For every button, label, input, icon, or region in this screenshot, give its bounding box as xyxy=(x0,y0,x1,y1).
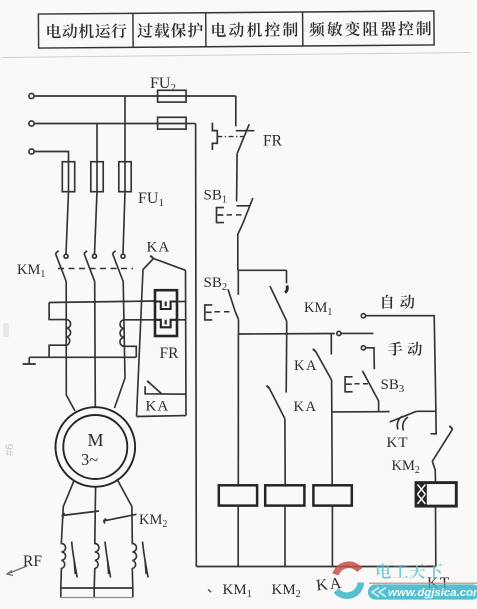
svg-text:3~: 3~ xyxy=(81,450,98,469)
contact KM1 self-holding xyxy=(286,270,288,283)
wire phase3 KM1 to motor xyxy=(115,282,126,409)
watermark banner xyxy=(368,583,477,599)
CT coil 3 winding bumps xyxy=(120,320,124,346)
rung B wire xyxy=(239,333,335,336)
motor M outer ring xyxy=(56,407,136,487)
wire phase1 KM1 to motor xyxy=(66,282,75,412)
svg-text:KA: KA xyxy=(294,399,318,415)
terminal auto xyxy=(361,314,365,318)
fuse FU2b xyxy=(158,117,187,129)
watermark logo swirl red xyxy=(336,565,360,575)
svg-text:#6: #6 xyxy=(4,444,16,456)
thermal contact FR heater bracket xyxy=(212,123,217,150)
left control rail xyxy=(195,124,198,567)
label KA coil xyxy=(315,575,344,595)
svg-text:KM2: KM2 xyxy=(272,582,301,600)
contactor KM1 pole 2 xyxy=(93,254,97,258)
svg-text:RF: RF xyxy=(23,553,42,570)
wire L3 to fuse FU1a xyxy=(34,152,68,162)
wire FU2b to left control rail xyxy=(186,123,196,125)
table cell text: frequency-sensitive rheostat control xyxy=(309,21,431,37)
table cell text: motor run xyxy=(47,21,431,39)
relay contact KA lower xyxy=(145,386,186,394)
pushbutton SB3 normally-open xyxy=(362,371,378,412)
svg-text:FU2: FU2 xyxy=(150,75,176,94)
terminal manual xyxy=(361,346,365,350)
table cell text: overload protection xyxy=(137,23,202,38)
coil KM1 xyxy=(219,485,257,505)
enclosure right edge xyxy=(185,270,188,415)
FR box right stubs to enclosure xyxy=(177,301,186,303)
svg-text:KA: KA xyxy=(147,240,171,256)
wire manual to SB3 xyxy=(366,348,375,369)
wire KM2 contact to KT coil xyxy=(432,461,435,482)
FR heater element 1 xyxy=(155,302,177,310)
watermark logo swirl cyan xyxy=(336,583,361,596)
svg-text:KA: KA xyxy=(146,399,170,415)
fuse FU1a xyxy=(62,162,74,192)
SB3 actuator E xyxy=(345,377,353,392)
svg-text:SB3: SB3 xyxy=(381,377,405,395)
wire top to FR contact xyxy=(235,96,237,126)
contactor KM1 pole 3 xyxy=(121,254,125,258)
contactor KM1 pole 1 xyxy=(64,254,68,258)
wire phase2 KM1 to motor xyxy=(94,282,97,408)
SB1 actuator E xyxy=(217,208,225,223)
wires fuses to KM1 poles xyxy=(66,192,69,254)
pushbutton SB2 normally-open xyxy=(237,270,239,295)
svg-text:KM1: KM1 xyxy=(223,582,252,600)
selector arm xyxy=(341,332,374,334)
rotor lead left xyxy=(61,480,74,542)
label auto (zidong) xyxy=(382,295,414,309)
coil KM2 xyxy=(265,485,304,505)
label manual (shoudong) xyxy=(388,342,422,356)
CT coil 1 winding bumps xyxy=(66,320,70,346)
ground symbol xyxy=(28,357,30,363)
rheostat RF slash marks 1 xyxy=(72,542,78,578)
rheostat RF slash marks 2 xyxy=(105,542,111,578)
time contact KT delayed xyxy=(390,411,417,422)
contactor KM2 rotor arm 2 xyxy=(104,514,137,521)
terminal L2 xyxy=(29,121,34,126)
svg-text:SB1: SB1 xyxy=(204,188,228,206)
KM1 mechanical link dashes xyxy=(58,268,133,270)
rotor lead middle xyxy=(94,487,97,543)
fuse FU2a xyxy=(158,90,187,102)
rotor lead right xyxy=(117,479,132,543)
wire CT coil1 bottom to common xyxy=(49,345,66,357)
rheostat RF slash marks 3 xyxy=(143,542,149,578)
bottom control rail xyxy=(196,566,435,568)
motor M inner ring xyxy=(63,415,127,479)
watermark text diangong tianxia xyxy=(377,563,442,579)
FR dash-dot link xyxy=(217,136,244,138)
fuse FU1b xyxy=(91,162,103,192)
svg-text:www.dgjsica.com: www.dgjsica.com xyxy=(388,587,477,599)
svg-text:KM1: KM1 xyxy=(304,300,332,318)
pushbutton SB1 normally-closed xyxy=(236,205,249,207)
rheostat RF winding 2 xyxy=(94,542,99,588)
wire auto to right rail xyxy=(366,316,436,412)
coil KT time relay xyxy=(416,483,456,507)
wire drop phase A to fuse FU1c xyxy=(124,96,126,162)
title table frame xyxy=(38,11,434,48)
relay contact KA upper (enclosure top) xyxy=(143,259,154,270)
enclosure bottom edge xyxy=(137,415,187,418)
wire CT coil3 top to FR heater 2 xyxy=(124,319,155,321)
svg-text:KA: KA xyxy=(294,358,318,374)
rung C wire xyxy=(332,411,390,413)
svg-text:KM1: KM1 xyxy=(17,262,45,280)
faint arrow mark bottom left xyxy=(7,566,27,574)
thermal contact FR normally-closed xyxy=(236,130,255,132)
wire FR to SB1 xyxy=(236,153,239,201)
coil KA xyxy=(313,485,351,505)
rotor star bar xyxy=(61,587,133,589)
contact KA lower branch xyxy=(269,388,285,418)
faint scan line under table xyxy=(2,53,470,58)
branch KA1 from rung B xyxy=(330,334,332,355)
contact KA upper branch xyxy=(316,352,332,380)
svg-text:M: M xyxy=(88,430,104,450)
thermal relay FR box xyxy=(155,290,177,336)
svg-text:KT: KT xyxy=(387,435,409,451)
wire detour to CT coil 1 xyxy=(49,303,66,320)
contact KM2 right branch xyxy=(435,411,437,434)
wire CT secondary top (line1) to FR heater 1 xyxy=(49,301,155,303)
FR heater element 2 xyxy=(155,320,177,328)
svg-text:KM2: KM2 xyxy=(139,512,167,530)
terminal L1 xyxy=(29,93,34,98)
svg-text:、: 、 xyxy=(207,580,220,595)
terminal L3 xyxy=(29,149,34,154)
table cell text: motor control xyxy=(212,22,297,37)
rung A wire xyxy=(238,269,287,271)
svg-text:SB2: SB2 xyxy=(204,275,228,293)
wire drop phase B to fuse FU1b xyxy=(96,124,98,162)
rheostat RF winding 3 xyxy=(132,542,136,588)
fuse FU1c xyxy=(119,162,131,192)
enclosure left edge xyxy=(137,270,144,417)
wire L2 to fuse FU2b xyxy=(34,123,158,125)
wire SB1 to rung A xyxy=(238,224,243,270)
contactor KM2 rotor arm 1 xyxy=(62,511,99,516)
wire FU2a to control column xyxy=(186,95,236,97)
wire CT common (line2) xyxy=(29,356,136,358)
wire CT coil3 bottom detour to common xyxy=(124,346,136,357)
selector common terminal xyxy=(337,331,341,335)
wire L1 to fuse FU2a xyxy=(34,95,158,97)
wire rung B to KM1 coil xyxy=(237,334,239,485)
branch KA2 from rung B xyxy=(285,334,288,393)
svg-text:FU1: FU1 xyxy=(138,190,164,209)
svg-text:FR: FR xyxy=(263,133,283,150)
SB2 actuator E xyxy=(205,305,213,320)
svg-text:KM2: KM2 xyxy=(392,458,420,476)
wire KT coil to bottom rail xyxy=(435,506,437,566)
svg-text:FR: FR xyxy=(160,345,180,362)
rheostat RF winding 1 xyxy=(61,542,66,588)
